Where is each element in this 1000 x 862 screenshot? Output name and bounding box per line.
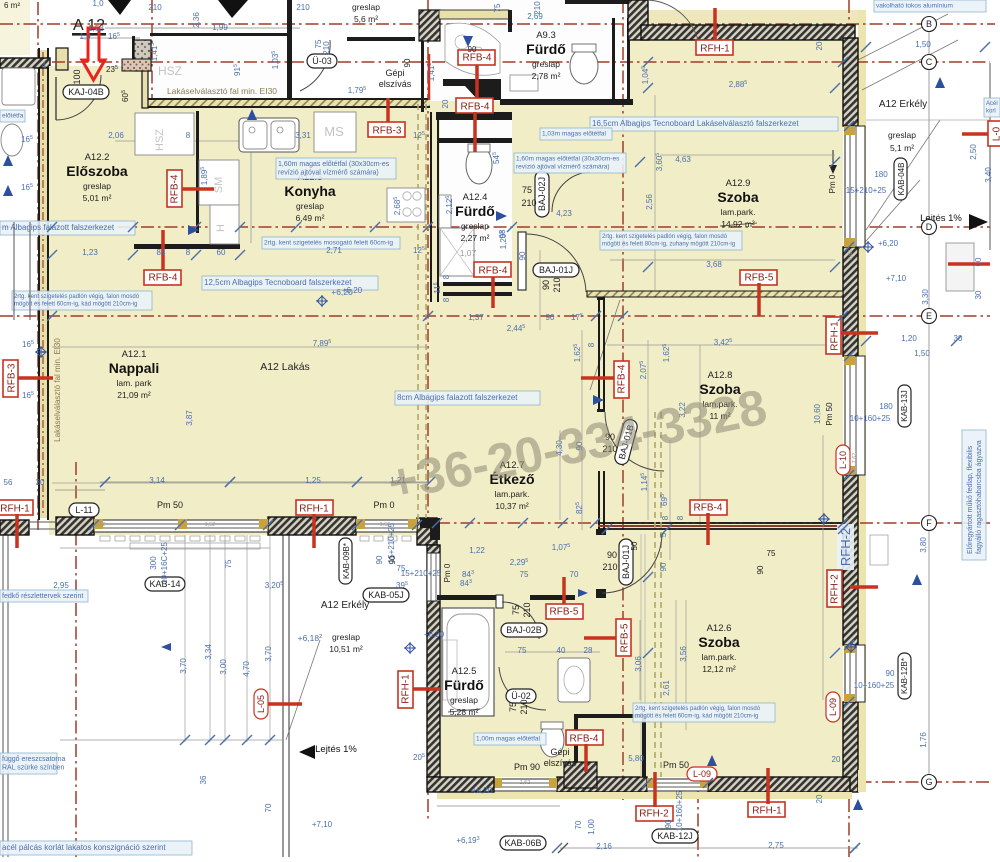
note mosogato: [262, 237, 400, 249]
svg-text:3,70: 3,70: [179, 658, 188, 674]
svg-text:14,92 m²: 14,92 m²: [721, 219, 755, 229]
svg-text:mögött és felett 60cm-ig, kád: mögött és felett 60cm-ig, kád mögött 210…: [635, 714, 758, 720]
svg-text:Acél: Acél: [986, 101, 998, 107]
red stem right wall E row: [850, 585, 878, 589]
svg-text:elszívás: elszívás: [379, 79, 412, 89]
neighbour top-left fixtures: [2, 68, 35, 105]
red section arrow: [82, 28, 105, 80]
A12.5 bathtub: [442, 608, 494, 716]
svg-text:SM: SM: [213, 177, 225, 194]
A12.4 washer: [439, 195, 451, 228]
svg-text:Pm 90: Pm 90: [514, 762, 540, 772]
grid circle G: [922, 775, 937, 790]
svg-text:75: 75: [518, 646, 527, 655]
olive strip below bottom wall: [437, 792, 852, 799]
svg-text:2,27 m²: 2,27 m²: [461, 233, 490, 243]
note 2rtg bottom: [633, 703, 775, 722]
svg-text:fagyálló ragasztóhabarcsba ágy: fagyálló ragasztóhabarcsba ágyazva: [976, 440, 983, 554]
A12.4 bathroom white: [440, 120, 512, 282]
svg-text:RFH-1: RFH-1: [752, 806, 782, 817]
note acel palcas: [0, 841, 192, 855]
svg-text:8: 8: [442, 297, 451, 302]
entry recess yellow: [49, 66, 142, 106]
svg-text:C: C: [926, 57, 933, 67]
right wall window KAB-12B: [845, 645, 865, 702]
Konyha/Furdo wall: [430, 112, 432, 302]
svg-text:2,71: 2,71: [326, 246, 342, 255]
blue arrows: [247, 109, 257, 120]
note 1,60m bath: [514, 153, 626, 173]
svg-text:1,00m magas előtétfal: 1,00m magas előtétfal: [476, 736, 541, 743]
A12.5 bathroom top wall: [437, 595, 497, 600]
svg-text:A12 Erkély: A12 Erkély: [879, 99, 927, 110]
svg-text:+6,20: +6,20: [424, 630, 445, 639]
svg-text:70: 70: [570, 570, 579, 579]
svg-text:fedkő részlettervek szerint: fedkő részlettervek szerint: [2, 593, 83, 600]
KAB-14 oval: [145, 577, 185, 591]
svg-text:1,0: 1,0: [79, 32, 91, 41]
kitchen hob: [387, 188, 425, 222]
note reszletterv: [0, 590, 88, 602]
svg-text:3,56: 3,56: [679, 646, 688, 662]
grid line row E: [0, 315, 990, 317]
RFB-4 boxes top: [475, 62, 479, 101]
svg-text:A12.2: A12.2: [85, 152, 110, 163]
RFH-2 box bottom: [636, 806, 673, 821]
svg-text:KAB-12J: KAB-12J: [657, 831, 693, 841]
svg-text:KAB-06B: KAB-06B: [504, 838, 541, 848]
dashed future partition kitchen/corridor: [417, 104, 419, 520]
RFB-4 box A12.8 bottom wall: [690, 500, 727, 515]
svg-text:Fürdő: Fürdő: [526, 41, 566, 57]
svg-text:30: 30: [974, 290, 983, 299]
svg-text:90: 90: [664, 819, 673, 828]
svg-text:1,25: 1,25: [305, 476, 321, 485]
svg-text:A12.5: A12.5: [452, 666, 477, 677]
svg-text:RFB-4: RFB-4: [694, 503, 723, 514]
svg-text:RFB-5: RFB-5: [745, 273, 774, 284]
right margin terrace edge: [989, 63, 991, 250]
grid col mid: [427, 0, 429, 820]
WC nook walls: [574, 714, 646, 718]
svg-text:12,12 m²: 12,12 m²: [702, 664, 736, 674]
RFB-4 box Eloszoba wall: [180, 187, 214, 191]
svg-text:1,22: 1,22: [469, 546, 485, 555]
A12.4 toilet: [466, 146, 492, 184]
svg-text:HSZ: HSZ: [158, 64, 182, 78]
svg-text:A12 Lakás: A12 Lakás: [260, 361, 310, 373]
svg-text:RAL szürke színben: RAL szürke színben: [2, 765, 64, 772]
svg-text:mögött és felett 60cm-ig, kád: mögött és felett 60cm-ig, kád mögött 210…: [14, 302, 137, 308]
svg-text:Pm 50: Pm 50: [663, 760, 689, 770]
svg-text:H: H: [215, 224, 227, 232]
svg-text:90: 90: [886, 669, 895, 678]
RFB-3 box kitchen: [386, 98, 390, 125]
svg-text:RFH-2: RFH-2: [838, 528, 853, 566]
svg-text:Pm 0: Pm 0: [443, 563, 452, 582]
RFB-5 box A12.9 bottom: [740, 270, 777, 285]
svg-text:75: 75: [224, 559, 233, 568]
top-right exterior hatched wall (A12.9): [628, 0, 648, 40]
BAJ-02J rot oval: [535, 171, 549, 217]
svg-text:180: 180: [874, 170, 888, 179]
svg-text:Pm 50: Pm 50: [157, 500, 183, 510]
BAJ-01B rot oval: [613, 418, 638, 466]
svg-text:210: 210: [533, 1, 542, 15]
entry door arc KAJ-04B: [55, 77, 57, 120]
svg-text:90: 90: [403, 58, 412, 67]
svg-text:2,06: 2,06: [108, 131, 124, 140]
svg-text:50: 50: [630, 541, 639, 550]
svg-text:L-05: L-05: [256, 695, 266, 713]
svg-text:+6,20: +6,20: [472, 786, 493, 795]
svg-text:KAB-13J: KAB-13J: [900, 390, 909, 422]
svg-text:lam. park: lam. park: [117, 378, 153, 388]
RFB-5 rot box right of bath: [584, 636, 618, 640]
U-02 oval: [506, 689, 536, 703]
RFB-5 box A12.5 top: [562, 577, 566, 605]
RFB-4 box A12.4 bottom: [491, 276, 495, 308]
svg-text:10+16C+25: 10+16C+25: [160, 542, 169, 584]
svg-text:210: 210: [519, 699, 529, 714]
svg-text:Előregyártott műkő fedlap, fle: Előregyártott műkő fedlap, flexibilis: [967, 445, 974, 554]
svg-text:Gépi: Gépi: [550, 747, 569, 757]
svg-text:2,56: 2,56: [645, 194, 654, 210]
apartment floor fill (yellow): [49, 40, 843, 777]
svg-text:5,28 m²: 5,28 m²: [450, 707, 479, 717]
svg-text:210: 210: [296, 3, 310, 12]
BAJ-02B oval: [501, 623, 547, 637]
note rotated right margin: [962, 430, 986, 560]
svg-text:Konyha: Konyha: [284, 183, 336, 199]
watermark phone number: [383, 379, 771, 512]
grid circle E: [922, 309, 937, 324]
svg-text:RFH-1: RFH-1: [0, 504, 30, 515]
svg-text:Lakáselválasztó fal min. EI30: Lakáselválasztó fal min. EI30: [53, 338, 62, 442]
svg-text:60: 60: [217, 248, 226, 257]
svg-text:56: 56: [4, 478, 13, 487]
svg-text:1,76: 1,76: [919, 732, 928, 748]
note 2rtg A12.9: [600, 231, 742, 250]
entry pier right: [142, 70, 148, 108]
door leaf + arc BAJ-01J corridor: [518, 232, 526, 290]
grid col right: [848, 0, 850, 857]
room above kitchen white: [425, 0, 510, 101]
svg-text:2,50: 2,50: [969, 144, 978, 160]
svg-text:2rtg. kent szigetelés padlón v: 2rtg. kent szigetelés padlón végig, falo…: [14, 294, 140, 300]
svg-text:Szoba: Szoba: [698, 634, 739, 650]
wall A12.8/A12.6: [598, 522, 843, 524]
svg-text:greslap: greslap: [352, 2, 380, 12]
svg-text:3,70: 3,70: [264, 646, 273, 662]
svg-text:3,80: 3,80: [919, 537, 928, 553]
svg-text:5,6 m²: 5,6 m²: [354, 14, 378, 24]
red duct line near Gepi: [428, 54, 431, 100]
wall between A12.9 and A12.8: [587, 291, 843, 297]
svg-text:1,0: 1,0: [92, 0, 104, 8]
svg-text:2,78 m²: 2,78 m²: [532, 71, 561, 81]
svg-text:1,50: 1,50: [914, 349, 930, 358]
bottom wall window L-08: [494, 779, 557, 791]
svg-text:21,09 m²: 21,09 m²: [117, 390, 151, 400]
svg-text:1,07: 1,07: [460, 248, 477, 258]
svg-text:greslap: greslap: [296, 201, 324, 211]
svg-text:1,03m magas előtétfal: 1,03m magas előtétfal: [542, 131, 607, 138]
svg-text:Pm 0: Pm 0: [828, 174, 837, 193]
svg-text:36: 36: [199, 775, 208, 784]
svg-text:Fürdő: Fürdő: [444, 677, 484, 693]
grid line row F: [437, 522, 990, 524]
svg-text:RFB-4: RFB-4: [170, 174, 181, 203]
svg-text:RFB-4: RFB-4: [479, 266, 508, 277]
svg-text:90: 90: [388, 555, 397, 564]
grid line row B: [0, 23, 995, 25]
svg-text:1,60m magas előtétfal (30x30cm: 1,60m magas előtétfal (30x30cm-es: [278, 161, 390, 168]
right exterior wall segments: [843, 38, 858, 126]
HSZ closet: [135, 113, 194, 155]
note ereszcsatorna: [0, 753, 57, 774]
grid circle F: [922, 516, 937, 531]
window band KAB-09B: [356, 520, 417, 532]
KAB-04B rot oval: [894, 158, 907, 200]
corner basin room above kitchen: [445, 23, 500, 75]
svg-text:3,30: 3,30: [921, 289, 930, 305]
door arc A9.3: [648, 0, 700, 52]
svg-text:+6,182: +6,182: [298, 633, 323, 643]
note vakolhato top right: [874, 0, 986, 12]
interior wall Eloszoba bottom: [134, 244, 240, 249]
svg-text:Lakáselválasztó fal min. EI30: Lakáselválasztó fal min. EI30: [167, 86, 277, 96]
svg-text:4: 4: [42, 61, 47, 70]
section cut arrow A top: [218, 0, 248, 18]
note 1,03m: [540, 128, 612, 140]
svg-text:210: 210: [322, 41, 331, 55]
svg-text:Nappali: Nappali: [109, 360, 160, 376]
svg-text:8: 8: [587, 342, 596, 347]
right margin leaders: [858, 14, 948, 60]
svg-text:F: F: [926, 518, 932, 528]
svg-text:A12 Erkély: A12 Erkély: [321, 600, 369, 611]
black corner bracket left of Etkezo: [420, 518, 440, 540]
svg-text:2,36: 2,36: [192, 12, 201, 28]
svg-text:20: 20: [832, 755, 841, 764]
grid circle C: [922, 55, 937, 70]
top-left neighbour hatched wall: [0, 58, 50, 68]
svg-text:3,31: 3,31: [295, 131, 311, 140]
svg-text:greslap: greslap: [888, 130, 916, 140]
interior wall Eloszoba closets: [196, 111, 199, 233]
svg-text:acél pálcás korlát lakatos kon: acél pálcás korlát lakatos konszignáció …: [2, 843, 166, 852]
A12.4 shower: [440, 228, 474, 276]
svg-text:1,52: 1,52: [520, 780, 531, 786]
svg-text:1,50: 1,50: [915, 40, 931, 49]
svg-text:2,16: 2,16: [596, 842, 612, 851]
entry pier hatched block: [134, 40, 151, 71]
KAB-05J oval: [363, 588, 409, 602]
U-03 oval: [307, 54, 337, 68]
svg-text:Gépi: Gépi: [385, 68, 404, 78]
svg-text:180: 180: [879, 402, 893, 411]
svg-text:függő ereszcsatorna: függő ereszcsatorna: [2, 756, 66, 763]
svg-text:HSZ: HSZ: [154, 129, 166, 151]
svg-text:1,23: 1,23: [82, 248, 98, 257]
svg-text:7,62: 7,62: [852, 453, 858, 464]
south window wall of Nappali (y≈518): [0, 520, 29, 535]
svg-text:1,52: 1,52: [205, 522, 216, 528]
svg-text:2rtg. kent szigetelés padlón v: 2rtg. kent szigetelés padlón végig, falo…: [602, 234, 728, 240]
svg-text:3,00: 3,00: [219, 659, 228, 675]
svg-text:RFB-5: RFB-5: [620, 623, 631, 652]
RFB-4 box WC: [566, 730, 603, 745]
svg-text:L-09: L-09: [693, 769, 711, 779]
svg-text:210: 210: [552, 277, 562, 292]
H closet: [210, 205, 239, 244]
RFH-1 rot box right wall: [840, 331, 878, 335]
grid col top small: [151, 0, 153, 108]
door arc A12.6 BAJ-01J: [602, 534, 662, 593]
svg-text:40: 40: [557, 646, 566, 655]
RFB-3 box left wall: [17, 376, 53, 380]
svg-text:KAB-12B*: KAB-12B*: [900, 658, 909, 694]
svg-text:70: 70: [574, 820, 583, 829]
svg-text:+6,193: +6,193: [456, 836, 479, 845]
svg-text:30: 30: [36, 478, 45, 487]
A9.3 toilet: [570, 48, 598, 84]
wall Etkezo/A12.8 with door BAJ-01B: [598, 299, 600, 412]
L-09 red oval right wall: [826, 692, 840, 722]
door arc BAJ-02J: [552, 172, 590, 212]
svg-text:210: 210: [148, 3, 162, 12]
KAB-12J oval: [652, 829, 698, 843]
A12.5 washbasin: [558, 658, 590, 702]
svg-text:RFH-1: RFH-1: [299, 504, 329, 515]
BAJ-01J rot oval bottom: [619, 539, 633, 585]
svg-text:RFB-4: RFB-4: [617, 364, 628, 393]
svg-text:6 m²: 6 m²: [4, 1, 20, 10]
note 12.5cm tecnoboard: [202, 276, 378, 290]
bottom exterior hatched wall: [557, 777, 647, 792]
svg-text:G: G: [925, 777, 932, 787]
svg-text:2,61: 2,61: [662, 680, 671, 696]
note otetfa: [0, 110, 25, 122]
svg-text:3,40: 3,40: [984, 167, 993, 183]
svg-text:revízió ajtóval vízmérő számár: revízió ajtóval vízmérő számára): [516, 164, 610, 171]
svg-text:lam.park.: lam.park.: [702, 652, 737, 662]
svg-text:BAJ-02B: BAJ-02B: [506, 625, 542, 635]
door leaf U-03: [347, 37, 415, 41]
svg-text:28: 28: [584, 646, 593, 655]
SM closet: [199, 160, 239, 205]
svg-text:15+210+25: 15+210+25: [846, 186, 887, 195]
svg-text:RFB-4: RFB-4: [570, 734, 599, 745]
svg-text:RFH-1: RFH-1: [401, 674, 412, 704]
dimension verticals inside rooms: [250, 114, 252, 243]
svg-text:A9.3: A9.3: [536, 30, 556, 41]
L-05 red oval terrace: [254, 689, 268, 719]
svg-text:1,20: 1,20: [901, 334, 917, 343]
svg-text:KAB-09B*: KAB-09B*: [342, 543, 351, 579]
extension lines terrace: [184, 535, 186, 742]
door arc U-03: [300, 40, 330, 91]
svg-text:revízió ajtóval vízmérő számár: revízió ajtóval vízmérő számára): [278, 170, 379, 177]
svg-text:60: 60: [974, 257, 983, 266]
svg-text:mögött és felett 80cm-ig, zuha: mögött és felett 80cm-ig, zuhany mögött …: [602, 242, 735, 248]
RFH-1 box top A12.9: [713, 8, 717, 42]
A9.3 walls: [565, 0, 633, 4]
L-06 red partial right edge: [962, 132, 1000, 136]
A12.4 bathroom bottom bars: [443, 282, 512, 286]
svg-text:12,5cm Albagips Tecnoboard fal: 12,5cm Albagips Tecnoboard falszerkezet: [204, 278, 352, 287]
svg-text:1,99: 1,99: [212, 23, 228, 32]
svg-text:A12.9: A12.9: [726, 178, 751, 189]
svg-text:B: B: [926, 19, 932, 29]
svg-text:Fürdő: Fürdő: [455, 203, 495, 219]
svg-text:90: 90: [518, 251, 527, 260]
svg-text:8: 8: [661, 515, 670, 520]
svg-text:Előszoba: Előszoba: [66, 163, 128, 179]
level markers: [404, 642, 416, 654]
svg-text:lam.park.: lam.park.: [495, 489, 530, 499]
svg-text:210: 210: [602, 562, 617, 572]
KAB-13J rot oval: [898, 385, 911, 427]
dashed partition Etkezo/A12.6: [654, 412, 656, 777]
grid line row G: [600, 781, 990, 783]
A12.4 bathroom top bars: [436, 112, 512, 120]
bottom dim row: [560, 847, 858, 849]
svg-text:3,68: 3,68: [706, 260, 722, 269]
svg-text:L-09: L-09: [828, 698, 838, 716]
KAB-12B rot oval: [898, 653, 911, 699]
svg-text:90: 90: [607, 550, 617, 560]
A9.3 sink: [510, 75, 538, 91]
svg-text:L-0: L-0: [992, 126, 1000, 141]
svg-text:210: 210: [522, 602, 532, 617]
svg-text:RFH-1: RFH-1: [830, 321, 841, 351]
svg-text:300: 300: [149, 556, 158, 570]
grid col 1 left: [37, 2, 39, 530]
svg-text:20: 20: [441, 99, 450, 108]
svg-text:L-11: L-11: [75, 505, 92, 515]
svg-text:1,53: 1,53: [88, 24, 104, 33]
svg-text:100: 100: [72, 69, 82, 84]
Pm0 down arrow right window: [832, 150, 834, 168]
RFH-1 box bottom right: [748, 802, 785, 817]
svg-text:4,63: 4,63: [675, 155, 691, 164]
right wall window KAB-13J / L-10: [845, 356, 865, 475]
RFB-4 box Eloszoba bottom: [161, 230, 165, 271]
right wall window KAB-04B: [845, 126, 865, 247]
svg-text:5,80: 5,80: [628, 754, 644, 763]
svg-text:8: 8: [186, 131, 191, 140]
svg-text:RFB-4: RFB-4: [461, 102, 490, 113]
grid col right-mid: [622, 0, 624, 800]
svg-text:KAJ-04B: KAJ-04B: [68, 87, 104, 97]
svg-text:4,70: 4,70: [242, 661, 251, 677]
svg-text:10,37 m²: 10,37 m²: [495, 501, 529, 511]
svg-text:+6,20: +6,20: [878, 239, 899, 248]
svg-text:BAJ-02J: BAJ-02J: [537, 177, 547, 211]
note albagips left: [0, 221, 135, 235]
RFH-1 box window wall mid: [296, 500, 333, 515]
svg-text:8cm Albagips falazott falszerk: 8cm Albagips falazott falszerkezet: [397, 393, 518, 402]
svg-text:Lejtés 1%: Lejtés 1%: [315, 744, 357, 755]
svg-text:10,51 m²: 10,51 m²: [329, 644, 363, 654]
svg-text:20: 20: [815, 41, 824, 50]
note 1,00m: [474, 733, 546, 745]
A9.3 bathroom white: [505, 0, 630, 100]
svg-text:2,95: 2,95: [53, 581, 69, 590]
thin ext line left of right wall: [822, 435, 824, 700]
